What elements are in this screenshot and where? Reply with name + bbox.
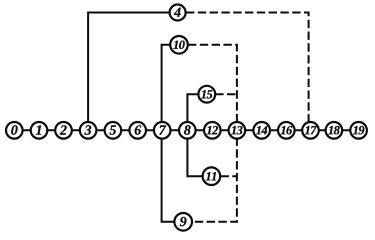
node 18: [326, 122, 343, 139]
node 7: [154, 122, 171, 139]
node 10: [170, 36, 188, 54]
node 12: [204, 122, 221, 139]
node 14: [253, 122, 270, 139]
node 8: [179, 122, 196, 139]
label 1: [36, 125, 41, 134]
wire 7 up to 10: [162, 45, 179, 131]
node 13: [229, 122, 246, 139]
label 12: [207, 126, 218, 134]
label 9: [180, 217, 187, 226]
label 0: [11, 125, 17, 134]
label 16: [281, 126, 293, 134]
node 17: [302, 122, 319, 139]
label 4: [174, 8, 181, 17]
label 2: [60, 125, 67, 134]
node 0: [6, 122, 23, 139]
wire 7 down to 9: [162, 130, 184, 222]
wire main chain 0-19: [6, 129, 367, 131]
node 19: [350, 122, 367, 139]
wire 8 down to 11: [187, 130, 211, 176]
dashed link 10 to column, column down through 13, to 9: [188, 45, 237, 222]
wire 3 up to 4: [88, 13, 178, 131]
label 19: [353, 126, 364, 134]
node 3: [80, 122, 97, 139]
label 11: [206, 172, 216, 180]
node 1: [31, 122, 48, 139]
label 5: [110, 125, 116, 134]
dashed link 4 to 17: [186, 13, 309, 123]
node 11: [203, 167, 221, 185]
node 15: [198, 86, 215, 103]
label 6: [135, 125, 142, 134]
label 14: [256, 126, 267, 134]
label 7: [159, 125, 166, 134]
label 13: [231, 126, 242, 134]
label 3: [84, 125, 91, 134]
label 8: [184, 125, 191, 134]
node 4: [170, 5, 186, 21]
wire 8 up to 15: [187, 94, 206, 130]
dashed link 11 to column: [221, 175, 237, 177]
label 18: [328, 126, 339, 134]
node 5: [105, 122, 122, 139]
label 17: [305, 126, 317, 134]
dashed link 15 to column: [215, 93, 237, 95]
node 16: [278, 122, 295, 139]
node 2: [55, 122, 72, 139]
label 10: [173, 41, 184, 49]
node 6: [129, 122, 146, 139]
node 9: [174, 213, 192, 231]
label 15: [201, 90, 212, 98]
